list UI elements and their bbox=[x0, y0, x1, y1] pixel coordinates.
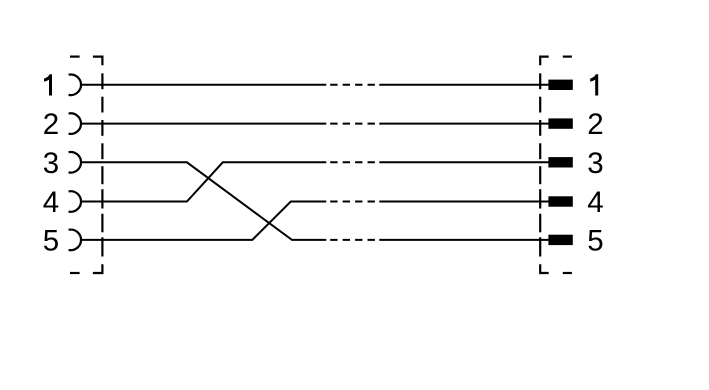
left connector housing outline, bottom-right corner dash bbox=[93, 264, 103, 273]
wire 2: left pin 2 to right pin 2, solid left segment bbox=[81, 123, 327, 125]
right connector housing outline, vertical dashed edge bbox=[539, 73, 541, 256]
female socket contact 2 (arc) bbox=[69, 113, 81, 134]
wire 2: solid right segment bbox=[379, 123, 549, 125]
male pin contact 1 (filled rectangle) bbox=[548, 80, 572, 90]
wire 5: left pin 5 crossing up to right pin 4, solid left segment with diagonal bbox=[81, 202, 327, 240]
svg-text:2: 2 bbox=[587, 108, 603, 141]
wire 2: dashed cable middle segment bbox=[330, 123, 375, 125]
wire 1: left pin 1 to right pin 1, solid left segment bbox=[81, 84, 327, 86]
female socket contact 3 (arc) bbox=[69, 152, 81, 173]
right connector housing outline, bottom dash bbox=[563, 272, 572, 274]
right connector housing outline, top-left corner dash bbox=[540, 57, 549, 66]
wire 5: solid right segment bbox=[379, 201, 549, 203]
male pin contact 5 (filled rectangle) bbox=[548, 235, 572, 245]
female socket contact 5 (arc) bbox=[69, 230, 81, 251]
left pin label 1 bbox=[44, 74, 52, 95]
right pin label 1 bbox=[590, 74, 598, 95]
left connector housing outline, vertical dashed edge bbox=[101, 73, 103, 256]
male pin contact 2 (filled rectangle) bbox=[548, 118, 572, 128]
wire 4: solid right segment bbox=[379, 161, 549, 163]
wire 4: dashed cable middle segment bbox=[330, 161, 375, 163]
right connector housing outline, bottom-left corner dash bbox=[540, 264, 549, 273]
svg-text:4: 4 bbox=[587, 186, 603, 219]
svg-text:3: 3 bbox=[43, 147, 59, 180]
svg-text:5: 5 bbox=[587, 224, 603, 257]
wire 4: left pin 4 crossing up to right pin 3, solid left segment with diagonal bbox=[81, 162, 327, 201]
wire 3: left pin 3 crossing down to right pin 5, solid left segment with diagonal bbox=[81, 162, 327, 240]
wire 5: dashed cable middle segment bbox=[330, 201, 375, 203]
female socket contact 1 (arc) bbox=[69, 75, 81, 96]
wire 1: dashed cable middle segment bbox=[330, 84, 375, 86]
wire 3: solid right segment bbox=[379, 239, 549, 241]
wire 3: dashed cable middle segment bbox=[330, 239, 375, 241]
svg-text:5: 5 bbox=[43, 224, 59, 257]
svg-text:2: 2 bbox=[43, 108, 59, 141]
male pin contact 3 (filled rectangle) bbox=[548, 157, 572, 167]
svg-text:4: 4 bbox=[43, 186, 59, 219]
male pin contact 4 (filled rectangle) bbox=[548, 196, 572, 206]
left connector housing outline, bottom dash bbox=[70, 272, 80, 274]
svg-text:3: 3 bbox=[587, 147, 603, 180]
left connector housing outline (dashed bracket), top dash bbox=[70, 55, 80, 57]
female socket contact 4 (arc) bbox=[69, 191, 81, 212]
left connector housing outline, top-right corner dash bbox=[93, 57, 103, 66]
right connector housing outline (dashed bracket), top dash bbox=[563, 55, 572, 57]
wire 1: solid right segment bbox=[379, 84, 549, 86]
